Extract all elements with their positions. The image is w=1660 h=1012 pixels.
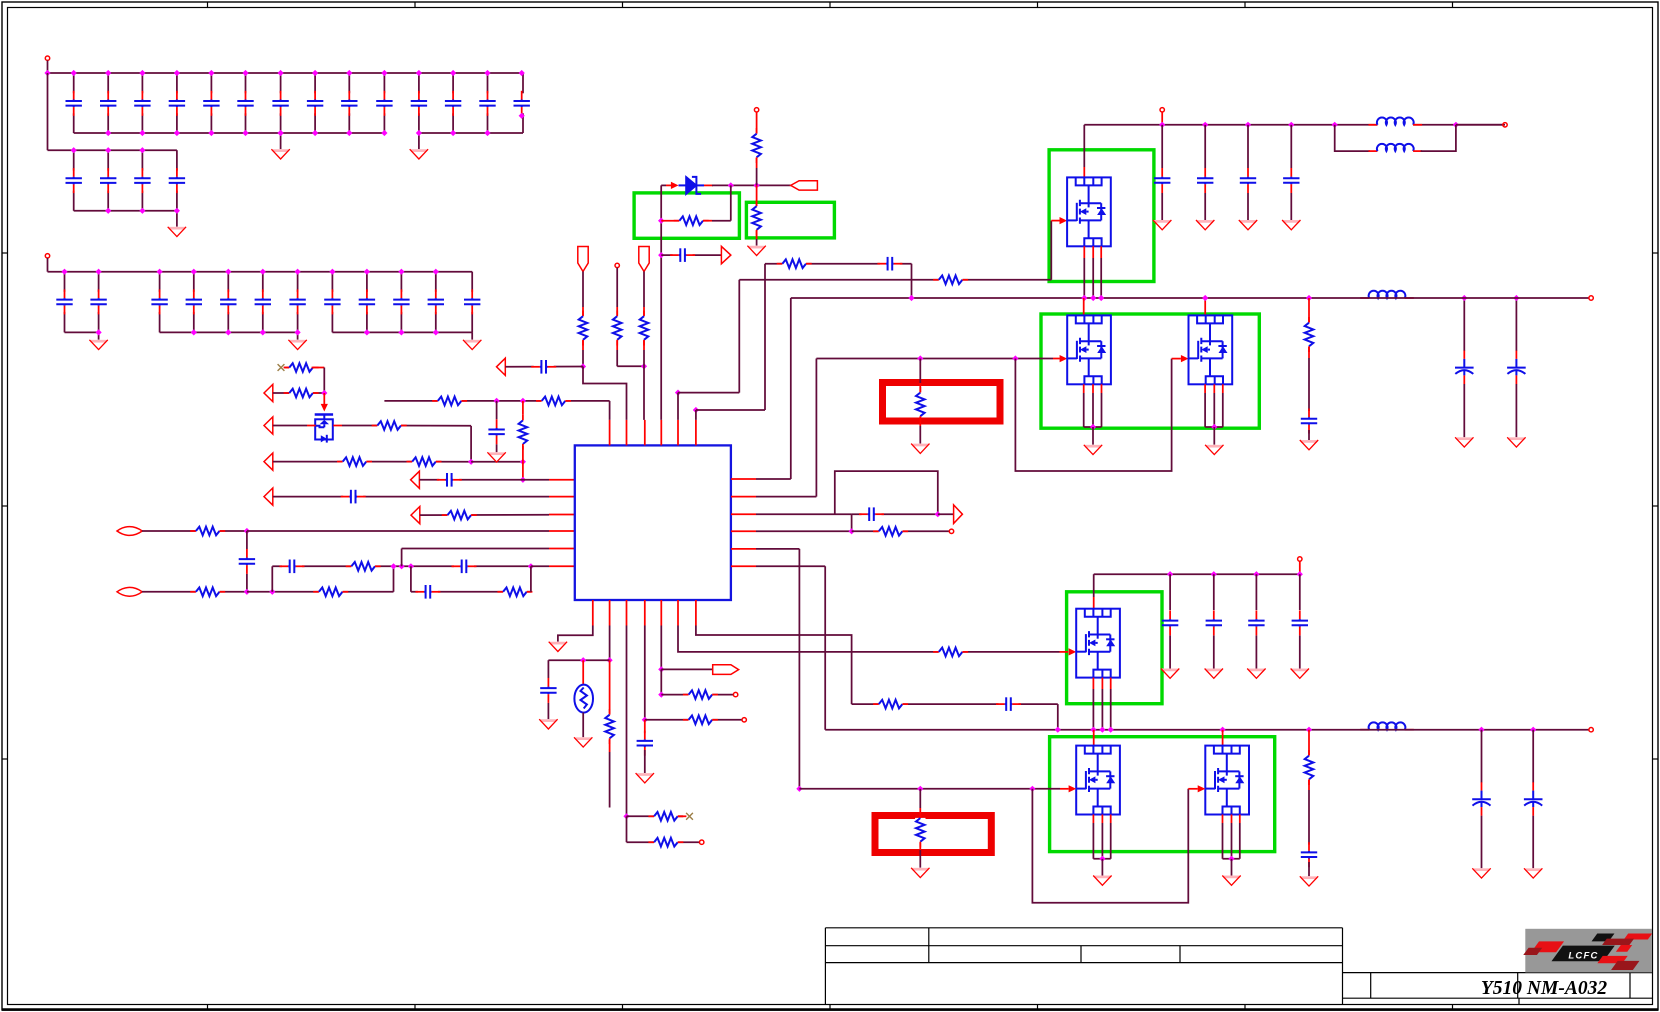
wire (609, 600, 611, 626)
wire (677, 393, 679, 420)
wire (661, 254, 721, 256)
node junction (278, 70, 284, 76)
wire (627, 841, 700, 843)
capacitor C9 (415, 585, 440, 599)
wire (74, 132, 385, 134)
wire (141, 73, 143, 133)
wire (851, 514, 853, 531)
wire (549, 565, 575, 567)
pin P3 (615, 263, 619, 267)
node junction (908, 295, 914, 301)
wire (1463, 384, 1465, 437)
wire (262, 272, 264, 333)
wire (645, 719, 742, 721)
inductor L3 (1360, 291, 1414, 302)
wire (626, 816, 628, 842)
wire VIN1 rail (1084, 124, 1505, 126)
pin P10 (1503, 123, 1507, 127)
highlight box (green) GB-B (746, 202, 834, 238)
wire (522, 446, 524, 462)
wire (731, 478, 756, 480)
node junction (381, 70, 387, 76)
node junction (96, 329, 102, 335)
wire (246, 531, 248, 549)
wire (1231, 859, 1233, 876)
ground GND4 (89, 340, 107, 350)
node junction (1098, 295, 1104, 301)
wire (280, 73, 282, 133)
wire (1051, 220, 1059, 222)
wire (911, 264, 913, 298)
wire (582, 350, 584, 367)
pin P11 (1589, 296, 1593, 300)
wire (64, 272, 66, 333)
wire (696, 626, 852, 705)
wire (1299, 636, 1301, 669)
capacitor C21 (polarized) (1472, 782, 1491, 816)
wire (1083, 125, 1085, 167)
node junction (105, 130, 111, 136)
wire (1093, 597, 1095, 609)
node junction (1306, 727, 1312, 733)
ground GND12 (636, 773, 654, 783)
capacitor C1j (376, 91, 392, 116)
node junction (1228, 856, 1234, 862)
transistor M2 (N-MOSFET) (1067, 315, 1111, 384)
ground GND21 (911, 868, 929, 878)
node junction (1297, 571, 1303, 577)
node junction (1167, 571, 1173, 577)
wire (1101, 859, 1103, 876)
no-connect X2 (686, 813, 693, 820)
wire (107, 73, 109, 133)
wire (332, 331, 472, 333)
wire (1239, 823, 1241, 859)
inductor L4 (1360, 722, 1414, 733)
wire (1169, 574, 1171, 610)
node junction (312, 130, 318, 136)
wire (756, 239, 758, 246)
wire (47, 60, 49, 73)
node junction (580, 363, 586, 369)
resistor R18 (777, 259, 812, 269)
wire (530, 566, 532, 592)
wire (549, 514, 575, 516)
node junction (174, 130, 180, 136)
wire (609, 660, 611, 713)
capacitor C23 (488, 419, 504, 444)
node junction (242, 130, 248, 136)
port (left arrow) A1 (264, 384, 273, 401)
capacitor C3j (393, 289, 409, 314)
wire (712, 220, 731, 222)
wire (938, 513, 954, 515)
wire LX1 bus (791, 297, 1309, 299)
capacitor C3g (289, 289, 305, 314)
node junction (1108, 727, 1114, 733)
wire (616, 268, 618, 307)
wire (919, 417, 921, 426)
capacitor C11 (670, 248, 695, 262)
port (left arrow) A7 (497, 358, 506, 375)
wire (74, 210, 177, 212)
port (right arrow) A8 (721, 246, 730, 263)
gate arrow M3 (1181, 355, 1189, 362)
resistor R17 (751, 201, 761, 236)
capacitor C20 (1162, 610, 1178, 635)
wire (756, 478, 791, 480)
wire (666, 184, 675, 186)
node junction (1029, 786, 1035, 792)
wire (331, 272, 333, 333)
wire (418, 73, 420, 133)
node junction (484, 70, 490, 76)
wire (730, 185, 732, 220)
node junction (312, 70, 318, 76)
capacitor C1g (272, 91, 288, 116)
ground GND6 (463, 340, 481, 350)
ground GND14 (1507, 437, 1525, 447)
wire (1092, 689, 1094, 730)
capacitor C8 (452, 560, 477, 574)
node junction (416, 70, 422, 76)
wire (107, 150, 109, 211)
wire (160, 331, 298, 333)
wire (73, 73, 75, 133)
node junction (399, 563, 405, 569)
resistor R20 (915, 387, 925, 422)
node junction (520, 477, 526, 483)
node junction (225, 269, 231, 275)
pin P9 (1160, 108, 1164, 112)
node junction (450, 130, 456, 136)
resistor R23 (648, 811, 683, 821)
wire (1083, 298, 1085, 315)
wire (452, 73, 454, 133)
wire (765, 263, 912, 265)
wire (756, 548, 799, 550)
wire (1204, 125, 1206, 168)
node junction (1220, 727, 1226, 733)
resistor R32 (432, 396, 467, 406)
node junction (1099, 727, 1105, 733)
wire (731, 496, 756, 498)
node junction (849, 528, 855, 534)
wire (1222, 393, 1224, 427)
node junction (1478, 727, 1484, 733)
wire (582, 660, 584, 685)
node VIN1 rail (48, 72, 524, 74)
wire (47, 73, 49, 150)
wire (1092, 384, 1094, 393)
title block table (825, 928, 1652, 1004)
wire (297, 272, 299, 333)
wire (1032, 788, 1060, 790)
ground GND18 (1291, 669, 1309, 679)
capacitor C3k (428, 289, 444, 314)
wire (583, 367, 627, 420)
node junction (484, 130, 490, 136)
wire (835, 471, 938, 514)
node junction (329, 269, 335, 275)
wire (1101, 689, 1103, 730)
node junction (519, 70, 525, 76)
wire (1205, 426, 1223, 428)
wire (227, 272, 229, 333)
capacitor C17c (1240, 168, 1256, 193)
capacitor C1k (411, 91, 427, 116)
wire (307, 425, 316, 427)
wire (1308, 790, 1310, 844)
node junction (520, 398, 526, 404)
wire (496, 444, 498, 452)
wire (487, 73, 489, 133)
power flag F1 (578, 247, 588, 272)
wire (1101, 823, 1103, 859)
node junction (1211, 571, 1217, 577)
wire (627, 815, 684, 817)
wire (1188, 788, 1197, 790)
wire (644, 720, 646, 737)
wire (393, 566, 395, 592)
node junction (450, 70, 456, 76)
highlight box (green) GB-A (634, 193, 739, 238)
wire (1110, 689, 1112, 730)
gate arrow M4 (1069, 648, 1077, 655)
node junction (1253, 571, 1259, 577)
resistor R15 (674, 216, 709, 226)
ground GND19 (1524, 868, 1542, 878)
wire (273, 392, 325, 394)
wire (285, 367, 291, 369)
wire (1083, 258, 1085, 298)
capacitor C3a (56, 289, 72, 314)
wire (496, 401, 498, 419)
wire (582, 307, 584, 316)
capacitor C15 (637, 731, 653, 756)
node junction (398, 269, 404, 275)
node junction (105, 208, 111, 214)
node junction (1202, 295, 1208, 301)
wire (549, 548, 575, 550)
wire (1231, 823, 1233, 859)
wire (418, 133, 420, 149)
wire (402, 548, 549, 550)
wire (547, 703, 549, 719)
resistor R6 (442, 510, 477, 520)
node junction (260, 269, 266, 275)
wire (73, 150, 75, 211)
wire (1255, 574, 1257, 610)
capacitor C1d (169, 91, 185, 116)
ground GND2 (410, 149, 428, 159)
node junction (295, 329, 301, 335)
wire (1057, 704, 1059, 730)
node junction (381, 130, 387, 136)
resistor R34 (518, 415, 528, 450)
wire (731, 513, 756, 515)
ground GND18 (1205, 669, 1223, 679)
wire (420, 514, 549, 516)
wire (609, 401, 611, 420)
wire (411, 591, 531, 593)
capacitor C2a (66, 168, 82, 193)
capacitor C1m (479, 91, 495, 116)
wire (695, 600, 697, 626)
thermistor RT1 (574, 685, 593, 713)
pin P13 (1589, 728, 1593, 732)
wire (1308, 730, 1310, 755)
wire (643, 350, 645, 420)
off-page connector OP1 (791, 181, 818, 190)
wire (661, 668, 712, 670)
wire (661, 220, 679, 222)
node junction (1159, 122, 1165, 128)
resistor R2 (284, 388, 319, 398)
bottom border thick line (2, 1008, 1658, 1011)
wire (678, 392, 739, 394)
wire (1100, 258, 1102, 298)
wire (272, 565, 531, 567)
node junction (1081, 295, 1087, 301)
ground GND13d (1282, 220, 1300, 230)
anode arrow D1 (671, 182, 679, 189)
node junction (346, 130, 352, 136)
pin P2 (45, 254, 49, 258)
resistor R30 (1304, 750, 1314, 785)
wire (273, 425, 307, 427)
ground GND20 (1300, 876, 1318, 886)
node junction (191, 329, 197, 335)
resistor R3 (372, 420, 407, 430)
wire (1239, 815, 1241, 824)
wire (592, 600, 594, 626)
node junction (433, 329, 439, 335)
wire (756, 185, 758, 208)
wire (176, 211, 178, 227)
wire (531, 565, 549, 567)
wire (919, 383, 921, 392)
wire LX2 bus (825, 729, 1309, 731)
capacitor C12 (877, 257, 902, 271)
wire (695, 410, 697, 420)
resistor R28 (873, 699, 908, 709)
IC U1 (575, 445, 731, 600)
node junction (260, 329, 266, 335)
wire (852, 530, 950, 532)
capacitor C1f (237, 91, 253, 116)
node junction (796, 786, 802, 792)
wire (731, 548, 756, 550)
wire (1110, 815, 1112, 824)
wire (919, 850, 921, 868)
wire (419, 132, 523, 134)
capacitor C20 (1292, 610, 1308, 635)
wire (1204, 193, 1206, 220)
node junction (494, 398, 500, 404)
wire (1093, 574, 1095, 597)
wire (1100, 246, 1102, 258)
wire (660, 600, 662, 626)
capacitor C13 (859, 507, 884, 521)
wire (1463, 298, 1465, 351)
wire (435, 272, 437, 333)
wire (756, 168, 758, 185)
wire (193, 272, 195, 333)
wire (1060, 651, 1069, 653)
node junction (278, 130, 284, 136)
wire (919, 789, 921, 808)
wire (1060, 788, 1069, 790)
capacitor C3l (464, 289, 480, 314)
capacitor C1a (66, 91, 82, 116)
pin P12 (1298, 557, 1302, 561)
wire (1092, 815, 1094, 824)
capacitor C1e (203, 91, 219, 116)
node junction (1306, 295, 1312, 301)
wire (764, 264, 766, 410)
wire (1161, 112, 1163, 125)
node junction (935, 511, 941, 517)
wire (1515, 384, 1517, 437)
resistor R4 (337, 456, 372, 466)
wire (549, 496, 575, 498)
wire (1421, 125, 1456, 151)
wire (505, 366, 583, 368)
wire (522, 401, 524, 415)
resistor R27 (933, 647, 968, 657)
capacitor C20 (1206, 610, 1222, 635)
node junction (242, 70, 248, 76)
wire (626, 626, 628, 817)
ground GND14 (1455, 437, 1473, 447)
node junction (1090, 424, 1096, 430)
wire (660, 669, 662, 694)
node junction (1461, 295, 1467, 301)
wire (609, 626, 611, 661)
capacitor C20 (1248, 610, 1264, 635)
node junction (346, 70, 352, 76)
wire (1308, 862, 1310, 876)
wire (712, 184, 791, 186)
port (oval) B2 (117, 587, 142, 596)
capacitor C17b (1197, 168, 1213, 193)
node junction (244, 528, 250, 534)
node junction (157, 269, 163, 275)
wire (1231, 815, 1233, 824)
wire (644, 750, 646, 773)
wire (273, 461, 471, 463)
node junction (364, 329, 370, 335)
node junction (416, 130, 422, 136)
wire (1308, 358, 1310, 412)
wire (400, 272, 402, 333)
power flag F2 (639, 247, 649, 272)
wire (643, 307, 645, 316)
ground GND1 (271, 149, 289, 159)
resistor R22 (604, 709, 614, 744)
node junction (658, 252, 664, 258)
resistor R7 (190, 526, 225, 536)
capacitor C7 (280, 560, 305, 574)
pin P4 (754, 108, 758, 112)
node junction (917, 786, 923, 792)
resistor R29 (1304, 317, 1314, 352)
wire (1481, 730, 1483, 783)
wire (919, 426, 921, 444)
node junction (917, 355, 923, 361)
wire (419, 479, 549, 481)
